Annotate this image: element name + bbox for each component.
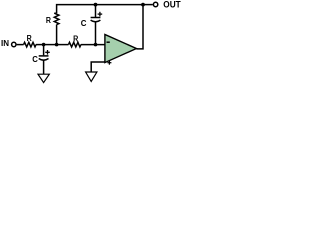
op-amp U1 <box>105 35 136 63</box>
wire: capacitor C2 to node C <box>95 22 97 45</box>
wire: R1 to node A <box>36 44 44 46</box>
resistor R2 <box>69 42 81 47</box>
wire: top rail node E to OUT terminal <box>143 4 153 6</box>
input terminal IN <box>12 42 16 46</box>
capacitor C2 (polarized) top plate <box>91 17 101 19</box>
wire: top rail from node D to output node <box>96 4 144 6</box>
wire: node D down to capacitor C2 <box>95 5 97 17</box>
wire: R3 up to top-left corner and top rail to C2 branch <box>57 5 96 14</box>
label - (inverting input marker) <box>107 41 110 43</box>
label + (C1 polarity) <box>45 50 50 55</box>
capacitor C1 (polarized) top plate <box>39 55 49 57</box>
capacitor C1 curved bottom plate <box>39 59 49 61</box>
label + (non-inverting input marker) <box>107 61 111 65</box>
node A junction dot <box>42 43 46 47</box>
svg-text:C: C <box>32 54 38 64</box>
wire: node A down to capacitor C1 <box>43 45 45 56</box>
svg-text:OUT: OUT <box>163 0 181 10</box>
node D junction dot (top rail / C2) <box>94 3 98 7</box>
ground symbol (below C1) <box>38 74 49 82</box>
wire: R2 to node C (inverting input node) <box>81 44 105 46</box>
label + (C2 polarity) <box>98 12 103 17</box>
wire: op-amp output up to node E <box>136 5 143 49</box>
wire: non-inverting input to ground <box>91 62 105 72</box>
svg-text:R: R <box>46 15 52 25</box>
ground symbol (non-inverting input) <box>86 72 97 81</box>
capacitor C2 curved bottom plate <box>91 20 101 22</box>
resistor R1 <box>24 42 36 47</box>
svg-text:IN: IN <box>1 38 9 48</box>
node E junction dot (top rail / output) <box>141 3 145 7</box>
node C junction dot <box>94 43 98 47</box>
resistor R3 (vertical) <box>54 13 59 24</box>
svg-text:R: R <box>73 33 79 43</box>
wire: capacitor C1 to ground <box>43 60 45 74</box>
output terminal OUT <box>153 2 157 6</box>
wire: node B to R2 <box>57 44 69 46</box>
wire: node A to node B <box>44 44 57 46</box>
node B junction dot <box>55 43 59 47</box>
wire: node B up to R3 <box>56 25 58 45</box>
wire: IN terminal to R1 <box>17 44 24 46</box>
svg-text:R: R <box>27 33 33 43</box>
svg-text:C: C <box>81 18 87 28</box>
